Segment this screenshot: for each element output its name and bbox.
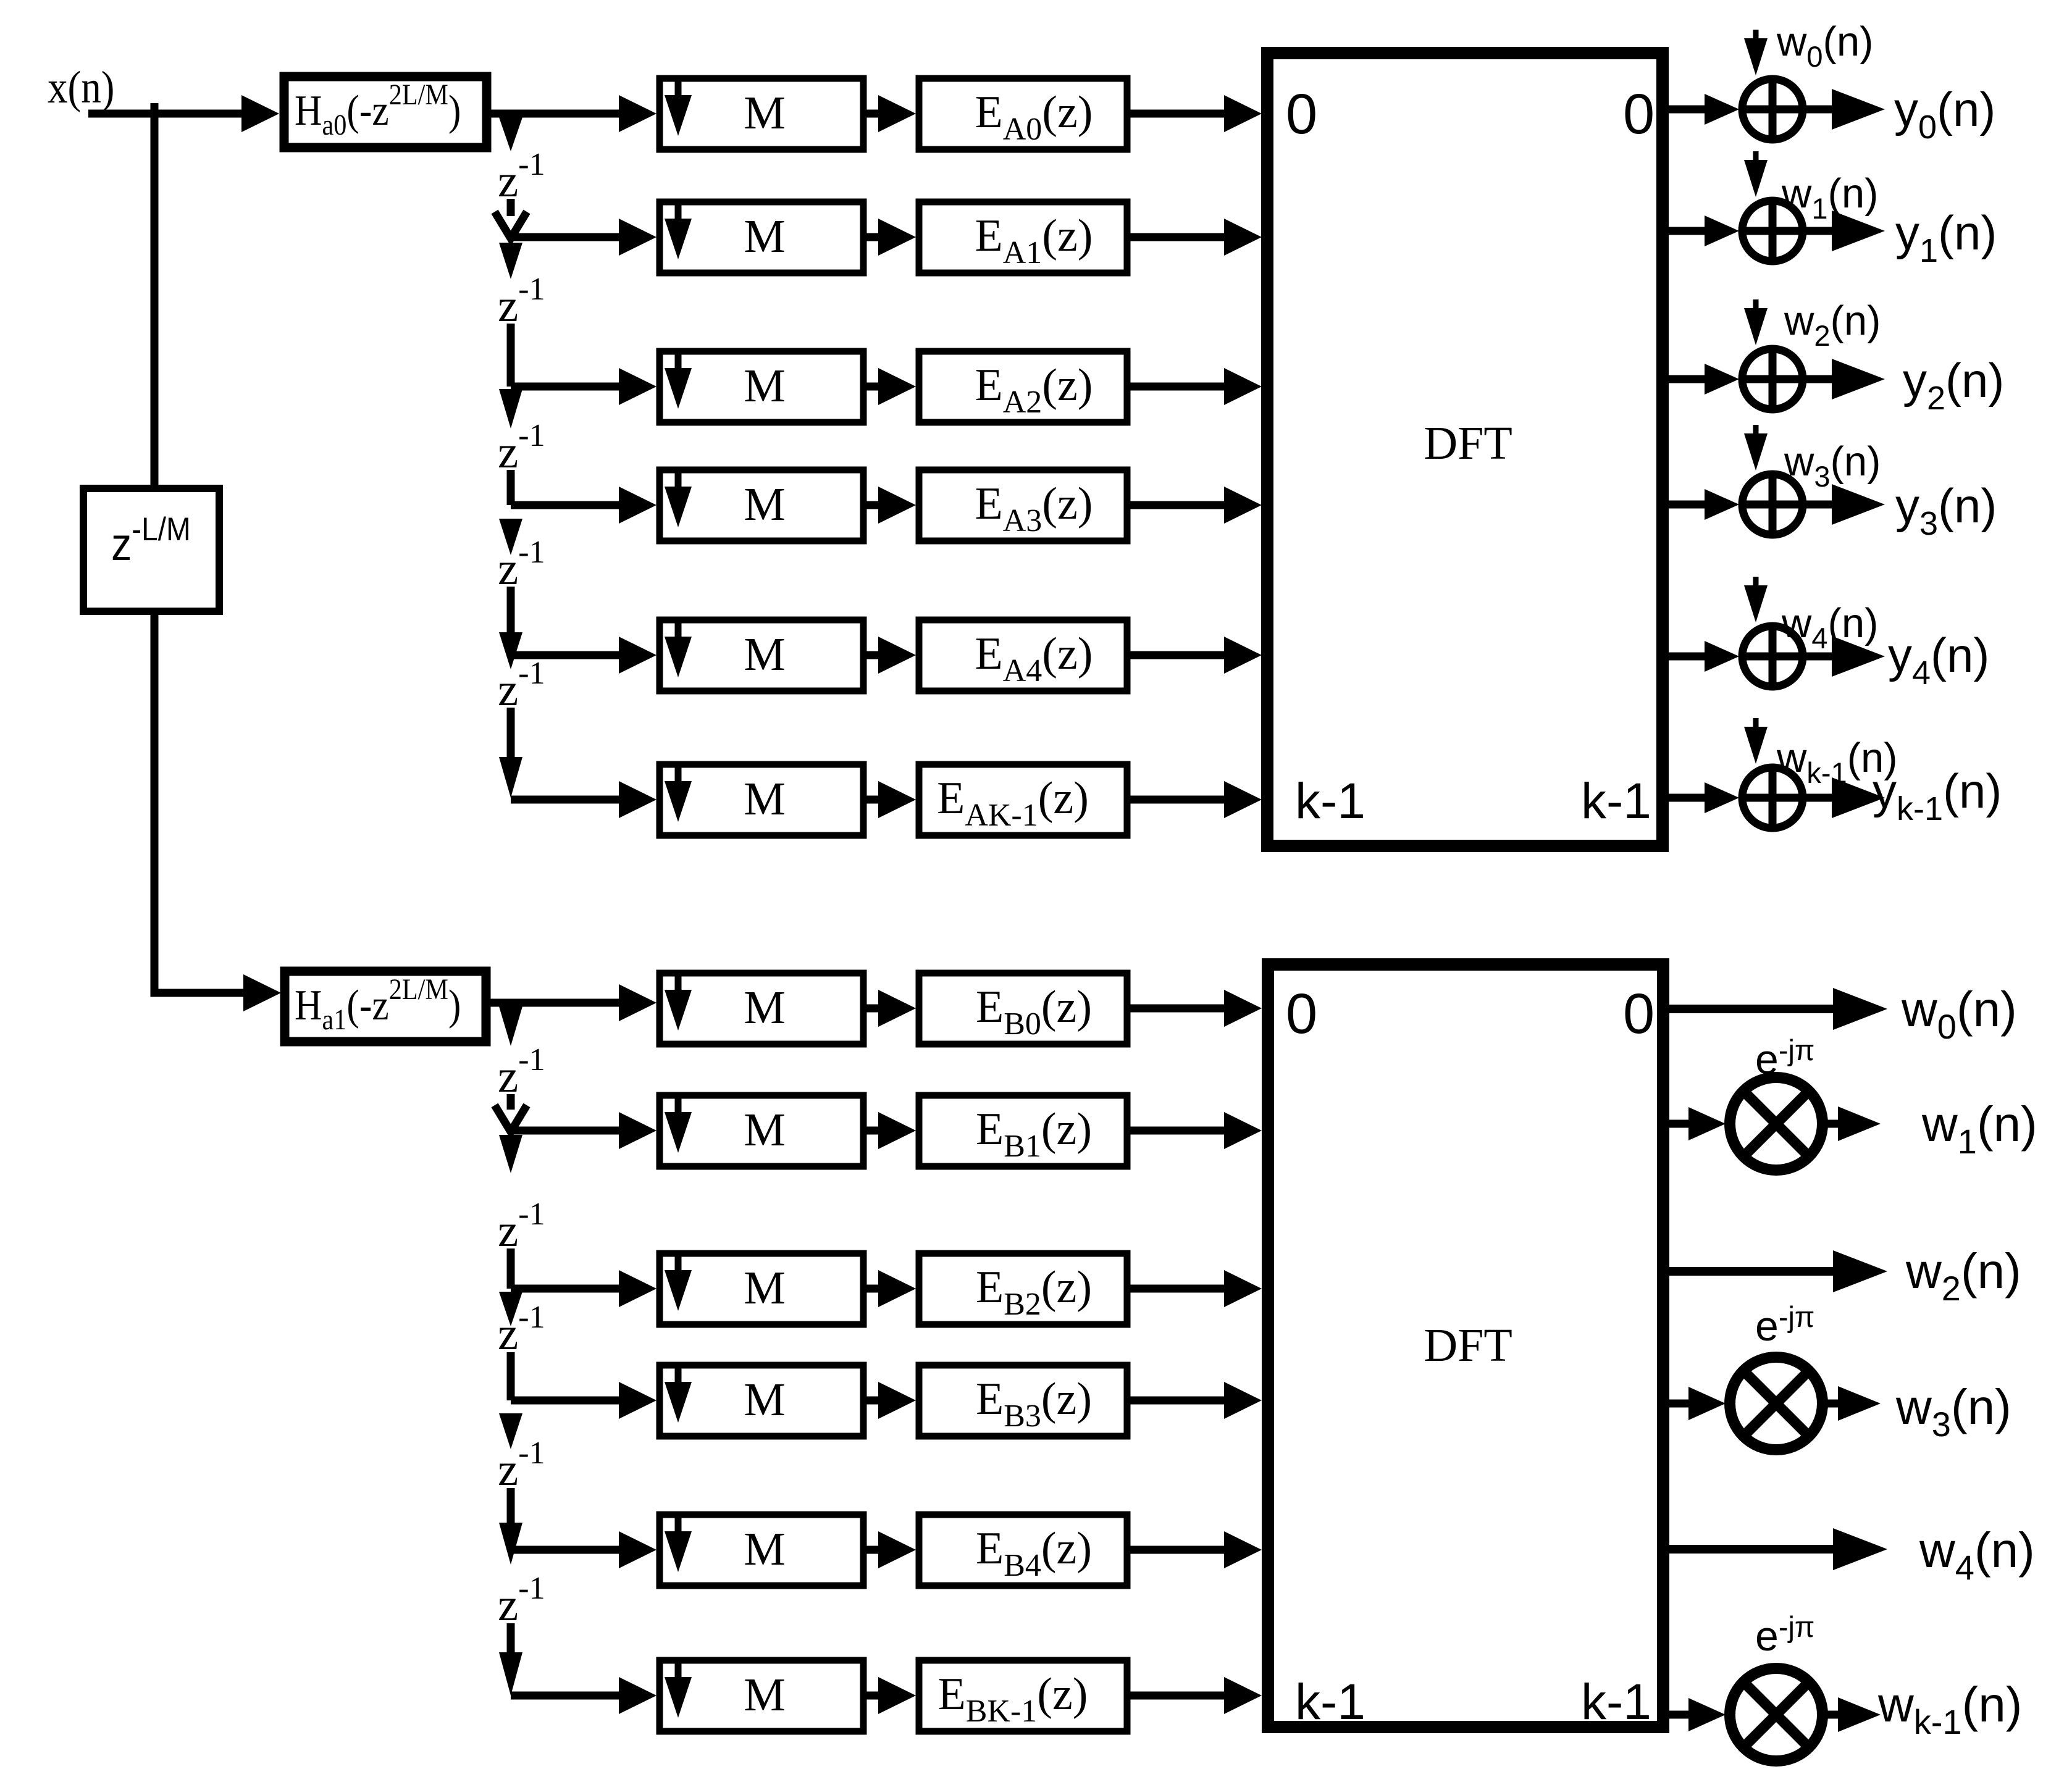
- node junction on x(n) wire: [151, 103, 159, 488]
- delay z^-1 B1 label: [498, 1042, 545, 1102]
- delay box z^-L/M: [83, 488, 219, 611]
- node label k-1 bottom DFT output: [1581, 1674, 1651, 1730]
- multiplier (x) for wk-1(n): [1730, 1668, 1822, 1761]
- wire w0(n) input arrow into adder 0: [1744, 30, 1768, 75]
- svg-text:M: M: [744, 982, 786, 1034]
- wire E BK-1 to DFT: [1130, 1677, 1262, 1714]
- svg-text:k-1: k-1: [1581, 773, 1651, 829]
- wire tap arrow chain B below Ha1 output: [499, 1006, 522, 1046]
- wire w2(n) input arrow into adder 2: [1744, 299, 1768, 345]
- polyphase filter E A4 box: [919, 620, 1127, 691]
- svg-text:M: M: [744, 1669, 786, 1721]
- svg-text:M: M: [744, 629, 786, 680]
- wire E A3 to DFT: [1130, 487, 1262, 524]
- wire chain B segment 1 with arrow into row B1 junction: [495, 1094, 527, 1132]
- wire E A2 to DFT: [1130, 368, 1262, 405]
- svg-text:y1(n): y1(n): [1895, 206, 1997, 269]
- label wk-1(n) bottom output: [1877, 1677, 2022, 1741]
- svg-text:M: M: [744, 1104, 786, 1156]
- delay z^-1 A3 label: [498, 418, 545, 478]
- downsampler M A0 box: [660, 78, 863, 149]
- wire chain B segment 2 line: [507, 1248, 515, 1289]
- label wk-1(n) above adder 5: [1776, 735, 1898, 789]
- svg-text:M: M: [744, 479, 786, 530]
- svg-text:w0(n): w0(n): [1901, 982, 2017, 1046]
- svg-text:w2(n): w2(n): [1784, 298, 1881, 352]
- polyphase filter E A2 box: [919, 351, 1127, 422]
- node label k-1 top DFT input: [1295, 773, 1365, 829]
- wire adder 2 output: [1803, 359, 1885, 399]
- svg-text:y3(n): y3(n): [1895, 479, 1997, 542]
- svg-text:DFT: DFT: [1424, 417, 1512, 469]
- node label k-1 top DFT output: [1581, 773, 1651, 829]
- label w4(n) above adder 4: [1781, 600, 1878, 654]
- wire chain A segment 2 line: [507, 324, 515, 387]
- node label 0 bottom DFT output: [1623, 982, 1655, 1045]
- wire E B2 to DFT: [1130, 1270, 1262, 1307]
- wire chain B segment 5 line and arrival arrow: [499, 1623, 522, 1696]
- wire M BK-1 to E BK-1: [866, 1677, 916, 1714]
- wire chain A segment 2 start arrow: [499, 243, 522, 279]
- wire DFT output 5 to adder 5: [1663, 782, 1739, 813]
- wire x(n) input to Ha0: [88, 95, 279, 132]
- wire chain B segment 3 start arrow: [499, 1292, 522, 1326]
- svg-text:0: 0: [1286, 83, 1317, 146]
- label w1(n) bottom output: [1921, 1097, 2037, 1161]
- wire chain A segment 3 line: [507, 470, 515, 505]
- wire chain junction to downsampler B1: [511, 1112, 656, 1149]
- polyphase filter E AK-1 box: [919, 764, 1127, 835]
- label w3(n) above adder 3: [1784, 438, 1881, 493]
- label y1(n) output 1: [1895, 206, 1997, 269]
- wire E A4 to DFT: [1130, 637, 1262, 674]
- wire DFT output 2 to adder 2: [1663, 364, 1739, 395]
- delay z^-1 A2 label: [498, 272, 545, 332]
- adder (+) 5 circle: [1742, 767, 1803, 828]
- downsampler M A1 box: [660, 202, 863, 273]
- multiplier (x) for w1(n): [1730, 1077, 1822, 1170]
- wire M A3 to E A3: [866, 487, 916, 524]
- delay z^-1 B3 label: [498, 1300, 545, 1360]
- wire adder 3 output: [1803, 484, 1885, 525]
- wire DFT output 1 to adder 1: [1663, 215, 1739, 246]
- wire DFT to multiplier at w1(n): [1663, 1107, 1726, 1140]
- filter box Ha0: [284, 77, 487, 148]
- svg-text:M: M: [744, 1523, 786, 1575]
- adder (+) 0 circle: [1742, 79, 1803, 140]
- label w2(n) bottom output: [1905, 1244, 2021, 1308]
- svg-text:M: M: [744, 1374, 786, 1426]
- wire DFT output 0 to adder 0: [1663, 94, 1739, 125]
- label e^-jpi gain at w3(n): [1755, 1300, 1814, 1350]
- delay z^-1 B5 label: [498, 1571, 545, 1631]
- wire tap arrow chain A below Ha0 output: [499, 117, 522, 151]
- adder (+) 4 circle: [1742, 626, 1803, 687]
- svg-text:0: 0: [1623, 83, 1655, 146]
- svg-text:0: 0: [1286, 982, 1317, 1045]
- svg-text:w1(n): w1(n): [1921, 1097, 2037, 1161]
- adder (+) 3 circle: [1742, 474, 1803, 535]
- downsampler M B2 box: [660, 1253, 863, 1324]
- wire multiplier output wk-1(n): [1822, 1697, 1881, 1732]
- delay z^-1 A1 label: [498, 147, 545, 207]
- wire w3(n) input arrow into adder 3: [1744, 425, 1768, 470]
- wire adder 0 output: [1803, 89, 1885, 130]
- wire chain B segment 4 start arrow: [499, 1413, 522, 1449]
- wire z^-L/M to Ha1: [154, 611, 281, 1011]
- wire Ha1 output to downsampler B0: [486, 984, 656, 1021]
- wire chain junction to downsampler BK-1: [511, 1677, 656, 1714]
- svg-text:w4(n): w4(n): [1919, 1523, 2035, 1587]
- wire wk-1(n) input arrow into adder 5: [1744, 718, 1768, 764]
- svg-text:M: M: [744, 1262, 786, 1314]
- svg-text:M: M: [744, 360, 786, 412]
- wire M A4 to E A4: [866, 637, 916, 674]
- downsampler M A4 box: [660, 620, 863, 691]
- polyphase filter E B2 box: [919, 1253, 1127, 1324]
- wire bottom DFT output w0(n): [1667, 988, 1887, 1030]
- downsampler M A2 box: [660, 351, 863, 422]
- wire DFT output 3 to adder 3: [1663, 489, 1739, 520]
- node label 0 top DFT input: [1286, 83, 1317, 146]
- delay z^-1 B4 label: [498, 1436, 545, 1495]
- downsampler M A3 box: [660, 470, 863, 541]
- label w3(n) bottom output: [1895, 1379, 2011, 1444]
- node input label x(n): [48, 62, 114, 113]
- wire chain A segment 5 line and arrival arrow: [499, 708, 522, 798]
- wire chain A segment 4 line and arrival arrow: [499, 587, 522, 669]
- wire adder 1 output: [1803, 211, 1885, 251]
- wire adder 5 output: [1803, 777, 1885, 818]
- node label 0 top DFT output: [1623, 83, 1655, 146]
- wire DFT output 4 to adder 4: [1663, 641, 1739, 672]
- wire Ha0 output to downsampler A0: [487, 95, 656, 132]
- label y2(n) output 2: [1903, 353, 2004, 417]
- wire M A2 to E A2: [866, 368, 916, 405]
- label e^-jpi gain at wk-1(n): [1755, 1610, 1814, 1660]
- wire E B4 to DFT: [1130, 1531, 1262, 1568]
- wire E A1 to DFT: [1130, 219, 1262, 256]
- svg-text:w2(n): w2(n): [1905, 1244, 2021, 1308]
- label y4(n) output 4: [1888, 628, 1989, 692]
- label w4(n) bottom output: [1919, 1523, 2035, 1587]
- polyphase filter E B0 box: [919, 973, 1127, 1044]
- multiplier (x) for w3(n): [1730, 1357, 1822, 1450]
- wire chain junction to downsampler A2: [511, 368, 656, 405]
- wire M B3 to E B3: [866, 1382, 916, 1419]
- wire E AK-1 to DFT: [1130, 781, 1262, 818]
- polyphase filter E A0 box: [919, 78, 1127, 149]
- wire DFT to multiplier at w3(n): [1663, 1387, 1726, 1420]
- svg-text:k-1: k-1: [1295, 1674, 1365, 1730]
- svg-text:M: M: [744, 773, 786, 825]
- polyphase filter E B3 box: [919, 1365, 1127, 1436]
- downsampler M BK-1 box: [660, 1660, 863, 1731]
- polyphase filter E A1 box: [919, 202, 1127, 273]
- filter box Ha1: [285, 971, 486, 1042]
- svg-text:DFT: DFT: [1424, 1319, 1512, 1371]
- polyphase filter E BK-1 box: [919, 1660, 1127, 1731]
- label w0(n) above adder 0: [1776, 19, 1873, 73]
- wire chain B segment 2 start arrow: [499, 1135, 522, 1173]
- wire M A1 to E A1: [866, 219, 916, 256]
- node label 0 bottom DFT input: [1286, 982, 1317, 1045]
- svg-text:w0(n): w0(n): [1776, 19, 1873, 73]
- wire chain A segment 4 start arrow: [499, 519, 522, 555]
- label yk-1(n) output 5: [1873, 764, 2002, 827]
- svg-text:w3(n): w3(n): [1895, 1379, 2011, 1444]
- delay z^-1 B2 label: [498, 1197, 545, 1257]
- wire w4(n) input arrow into adder 4: [1744, 577, 1768, 622]
- wire chain junction to downsampler B4: [511, 1531, 656, 1568]
- wire M AK-1 to E AK-1: [866, 781, 916, 818]
- wire E A0 to DFT: [1130, 95, 1262, 132]
- downsampler M B4 box: [660, 1515, 863, 1586]
- svg-text:w4(n): w4(n): [1781, 600, 1878, 654]
- wire chain A segment 3 start arrow: [499, 389, 522, 429]
- wire chain junction to downsampler B3: [511, 1382, 656, 1419]
- wire chain junction to downsampler A1: [511, 219, 656, 256]
- wire chain junction to downsampler A3: [511, 487, 656, 524]
- wire chain B segment 3 line: [507, 1352, 515, 1400]
- downsampler M B3 box: [660, 1365, 863, 1436]
- delay z^-1 A5 label: [498, 656, 545, 716]
- svg-text:k-1: k-1: [1295, 773, 1365, 829]
- label w1(n) above adder 1: [1781, 170, 1878, 225]
- wire E B0 to DFT: [1130, 990, 1262, 1027]
- label w0(n) bottom output: [1901, 982, 2017, 1046]
- wire M A0 to E A0: [866, 95, 916, 132]
- label e^-jpi gain at w1(n): [1755, 1034, 1814, 1083]
- adder (+) 1 circle: [1742, 201, 1803, 261]
- svg-text:M: M: [744, 87, 786, 139]
- svg-text:w1(n): w1(n): [1781, 170, 1878, 225]
- svg-text:y4(n): y4(n): [1888, 628, 1989, 692]
- wire chain B segment 4 line and arrival arrow: [499, 1488, 522, 1565]
- wire bottom DFT output w2(n): [1667, 1250, 1887, 1292]
- label w2(n) above adder 2: [1784, 298, 1881, 352]
- wire M B4 to E B4: [866, 1531, 916, 1568]
- downsampler M B0 box: [660, 973, 863, 1044]
- svg-text:k-1: k-1: [1581, 1674, 1651, 1730]
- polyphase filter E B4 box: [919, 1515, 1127, 1586]
- downsampler M AK-1 box: [660, 764, 863, 835]
- wire adder 4 output: [1803, 636, 1885, 677]
- svg-text:y0(n): y0(n): [1894, 82, 1995, 146]
- wire M B2 to E B2: [866, 1270, 916, 1307]
- polyphase filter E B1 box: [919, 1095, 1127, 1166]
- svg-text:x(n): x(n): [48, 62, 114, 113]
- wire multiplier output w3(n): [1822, 1386, 1881, 1421]
- wire DFT to multiplier at wk-1(n): [1663, 1698, 1726, 1731]
- wire E B3 to DFT: [1130, 1382, 1262, 1419]
- svg-text:y2(n): y2(n): [1903, 353, 2004, 417]
- wire w1(n) input arrow into adder 1: [1744, 151, 1768, 197]
- node label k-1 bottom DFT input: [1295, 1674, 1365, 1730]
- svg-text:M: M: [744, 211, 786, 262]
- wire chain junction to downsampler B2: [511, 1270, 656, 1307]
- wire M B1 to E B1: [866, 1112, 916, 1149]
- delay z^-1 A4 label: [498, 535, 545, 595]
- adder (+) 2 circle: [1742, 349, 1803, 409]
- wire M B0 to E B0: [866, 990, 916, 1027]
- svg-text:0: 0: [1623, 982, 1655, 1045]
- wire bottom DFT output w4(n): [1667, 1528, 1887, 1570]
- wire multiplier output w1(n): [1822, 1106, 1881, 1141]
- label y0(n) output 0: [1894, 82, 1995, 146]
- wire chain junction to downsampler AK-1: [511, 781, 656, 818]
- wire chain A segment 1 with arrow into row 1 junction: [495, 199, 527, 238]
- polyphase filter E A3 box: [919, 470, 1127, 541]
- wire chain junction to downsampler A4: [511, 637, 656, 674]
- label y3(n) output 3: [1895, 479, 1997, 542]
- DFT box top: [1267, 53, 1663, 846]
- wire E B1 to DFT: [1130, 1112, 1262, 1149]
- DFT box bottom: [1268, 964, 1663, 1727]
- downsampler M B1 box: [660, 1095, 863, 1166]
